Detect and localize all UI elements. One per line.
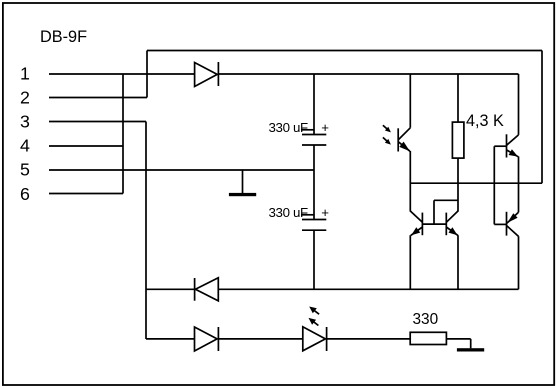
wire top rail (147, 50, 542, 52)
svg-text:5: 5 (20, 160, 30, 180)
wire pin2 (49, 97, 147, 99)
wire Q2 emitter to bottom rail (409, 235, 411, 289)
wire Q1 emitter down (409, 151, 411, 212)
svg-text:330 uF: 330 uF (269, 205, 309, 220)
resistor R1 (452, 122, 464, 158)
capacitor C1 (302, 134, 326, 136)
wire Q4 base left and down (494, 145, 506, 147)
transistor Q5 (lower right) (506, 212, 508, 236)
light arrow into Q1 (upper) (383, 125, 387, 129)
diode D3 (195, 327, 218, 351)
svg-text:DB-9F: DB-9F (40, 28, 87, 46)
LED emission arrow (lower) (313, 322, 318, 326)
wire Q2-Q3 base link (422, 223, 446, 225)
svg-text:330 uF: 330 uF (269, 120, 309, 135)
phototransistor Q1 collector wire (409, 74, 411, 128)
resistor R2 (410, 332, 446, 344)
svg-text:6: 6 (20, 184, 30, 204)
svg-text:2: 2 (20, 87, 30, 107)
diode D1 (195, 63, 218, 87)
wire mirror base link vertical (433, 200, 435, 224)
wire R2 to ground (446, 338, 470, 340)
wire pin6 (49, 193, 123, 195)
wire pin1 to diode anode (49, 73, 195, 75)
tick under C2 label (301, 214, 315, 216)
wire D3 to LED (218, 338, 302, 340)
transistor Q4 (upper right) (518, 74, 520, 135)
wire R1 bottom down (457, 158, 459, 211)
transistor Q2 (mirror left) (421, 213, 423, 236)
transistor Q3 (mirror right, diode connected) (445, 213, 447, 236)
wire LED line left (146, 338, 195, 340)
svg-text:+: + (321, 120, 329, 135)
svg-text:4,3 K: 4,3 K (466, 112, 504, 130)
phototransistor Q1 (397, 128, 399, 151)
wire Q4 emitter down to Q5 collector (518, 157, 520, 213)
wire pin2 up to top rail (146, 51, 148, 98)
ground bar at pin5 (229, 193, 256, 196)
LED D4 (303, 327, 326, 351)
capacitor C2 (302, 219, 326, 221)
wire V+ down to R1 (457, 74, 459, 122)
svg-text:+: + (321, 205, 329, 220)
wire LED to R2 (327, 338, 411, 340)
svg-text:4: 4 (20, 136, 30, 156)
wire V+ down to C1 (313, 74, 315, 135)
svg-text:330: 330 (413, 311, 439, 328)
svg-text:1: 1 (20, 63, 30, 83)
ground bar at R2 (457, 348, 484, 351)
diode D2 (points left) (194, 278, 196, 301)
wire bus vertical pins 1-4-6 (122, 74, 124, 194)
wire bottom rail right (218, 288, 518, 290)
wire Q5 emitter down to bottom rail (518, 236, 520, 289)
wire pin4 (49, 145, 123, 147)
wire pin3 (49, 121, 146, 123)
wire bottom rail left (146, 288, 195, 290)
wire right rail down (541, 51, 543, 184)
wire Q3 emitter to bottom rail (457, 235, 459, 289)
wire D1 cathode to V+ line (218, 73, 518, 75)
svg-text:3: 3 (20, 112, 30, 132)
wire pin5 (49, 169, 314, 171)
tick under C1 label (301, 129, 315, 131)
wire mirror base link horizontal (434, 199, 458, 201)
LED emission arrow (upper) (314, 310, 319, 314)
wire pin3 down to bottom lines (145, 122, 147, 340)
wire C2 down to bottom rail (313, 230, 315, 289)
ground stub at pin5 (242, 170, 244, 193)
wire C1 to C2 (gnd mid) (313, 145, 315, 220)
light arrow into Q1 (lower) (383, 137, 387, 141)
wire mid horizontal rail (410, 182, 542, 184)
